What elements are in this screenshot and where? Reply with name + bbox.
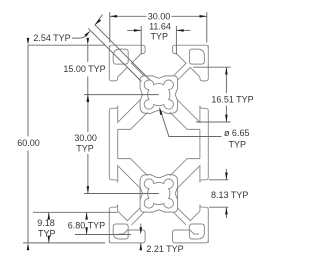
svg-text:11.64: 11.64 bbox=[149, 21, 171, 31]
svg-text:8.13 TYP: 8.13 TYP bbox=[211, 190, 248, 200]
svg-text:2.54 TYP: 2.54 TYP bbox=[33, 33, 70, 43]
svg-text:6.80 TYP: 6.80 TYP bbox=[68, 220, 105, 230]
svg-text:TYP: TYP bbox=[38, 229, 56, 239]
svg-text:15.00 TYP: 15.00 TYP bbox=[63, 64, 105, 74]
svg-text:ø 6.65: ø 6.65 bbox=[224, 128, 250, 138]
svg-text:TYP: TYP bbox=[150, 31, 168, 41]
svg-text:30.00: 30.00 bbox=[148, 12, 171, 22]
svg-text:16.51 TYP: 16.51 TYP bbox=[211, 95, 253, 105]
svg-text:TYP: TYP bbox=[229, 139, 247, 149]
svg-text:2.21 TYP: 2.21 TYP bbox=[146, 244, 183, 254]
svg-text:60.00: 60.00 bbox=[17, 138, 40, 148]
svg-text:9.18: 9.18 bbox=[37, 218, 55, 228]
svg-text:30.00: 30.00 bbox=[74, 133, 97, 143]
svg-text:TYP: TYP bbox=[76, 143, 94, 153]
